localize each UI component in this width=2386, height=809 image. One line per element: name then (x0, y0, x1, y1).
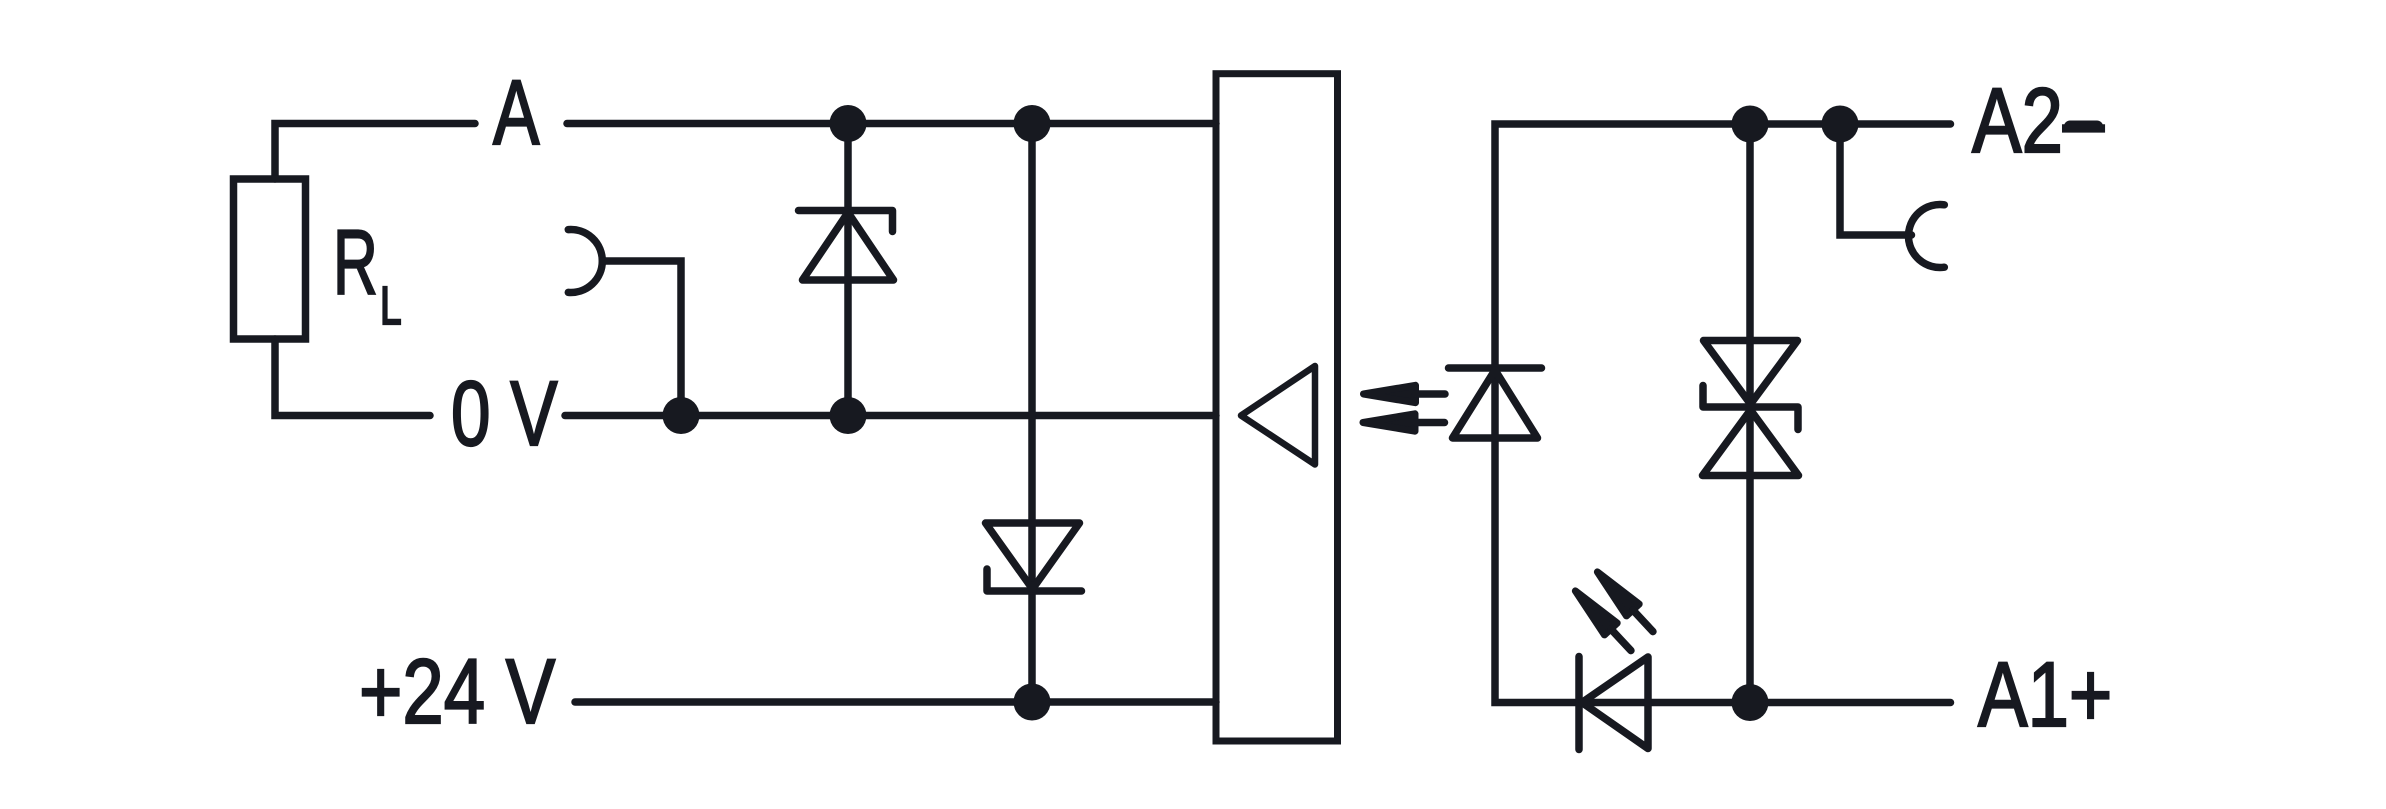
TVS suppressor upper triangle (1704, 341, 1798, 405)
resistor RL (234, 179, 306, 339)
zener diode D2 triangle (986, 523, 1080, 589)
TVS suppressor middle bar (1703, 386, 1798, 430)
status LED triangle (1582, 657, 1648, 749)
node A1 / TVS (1732, 684, 1769, 721)
svg-text:R: R (333, 211, 378, 314)
status LED ray arrow right (1591, 566, 1659, 637)
clamp contact arc left (568, 230, 602, 293)
svg-text:A1+: A1+ (1978, 642, 2112, 745)
zener diode D1 cathode bar (799, 211, 893, 232)
svg-text:+24 V: +24 V (359, 639, 556, 742)
node A2 / clamp branch (1822, 106, 1859, 143)
light arrow upper into receiver (1364, 385, 1446, 402)
TVS suppressor lower triangle (1703, 410, 1799, 476)
label A2 minus stroke (2070, 121, 2097, 133)
status LED ray arrow left (1569, 585, 1637, 656)
wire vertical branch D2 (1028, 124, 1036, 703)
wire A2 to clamp arc (1840, 124, 1912, 235)
wire vertical branch D1 (844, 124, 852, 416)
output block U1 (1216, 74, 1338, 741)
status LED cathode bar (1575, 657, 1583, 750)
wire +24V line (575, 698, 1216, 706)
svg-text:0 V: 0 V (451, 363, 558, 465)
node A line / D1 (830, 105, 867, 142)
wire from clamp arc to 0V (603, 261, 682, 416)
node A line / D2 (1014, 105, 1051, 142)
svg-text:A: A (493, 62, 540, 165)
svg-text:A2–: A2– (1972, 68, 2105, 171)
optocoupler LED triangle (1453, 370, 1538, 438)
wire TVS branch (1746, 124, 1754, 703)
wire 0V line (565, 412, 1216, 420)
light arrow lower into receiver (1363, 414, 1445, 431)
zener diode D2 cathode bar (987, 569, 1082, 591)
clamp contact arc right (1908, 205, 1944, 268)
wire A-terminal to load top (275, 124, 475, 180)
wire A line (567, 120, 1216, 128)
amplifier triangle (1241, 366, 1315, 465)
zener diode D1 triangle (803, 213, 894, 281)
node +24V / D2 (1014, 684, 1051, 721)
wire load bottom to 0V terminal (275, 339, 430, 416)
node 0V / D1 (830, 397, 867, 434)
node 0V / clamp branch (663, 397, 700, 434)
wire right loop A2 / A1 (1495, 124, 1951, 703)
svg-text:L: L (380, 275, 402, 336)
optocoupler LED cathode bar (1449, 364, 1542, 372)
node A2 / TVS (1732, 106, 1769, 143)
